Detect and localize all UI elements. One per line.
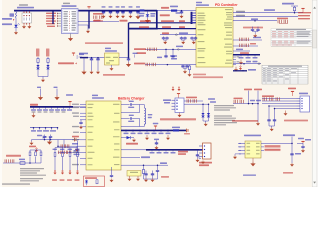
thick pin bundle left top <box>192 12 197 24</box>
capacitor C12 C13 <box>190 37 197 45</box>
bus BAT thick <box>121 149 203 153</box>
wire VOUT thick <box>233 69 256 72</box>
capacitor C21 <box>43 135 46 140</box>
TP label and flag <box>288 88 296 96</box>
IC U4 label <box>92 95 104 99</box>
ground under J1 <box>68 34 73 42</box>
wire GPIO row <box>233 18 277 21</box>
ground under J2 <box>178 113 182 118</box>
capacitor C18 <box>126 58 131 67</box>
pin stubs J1 left <box>57 13 61 27</box>
resistor array pullups <box>277 18 288 24</box>
wire VBUS down to LDO <box>128 23 130 58</box>
heading fuel gauge red <box>6 155 21 157</box>
capacitor C23 left <box>79 120 83 129</box>
capacitor C32 right <box>301 143 305 152</box>
wire AUX row <box>233 61 261 65</box>
corner text <box>2 183 30 184</box>
wire SPI row <box>134 48 196 54</box>
wire CC from J1 right <box>78 20 128 22</box>
TP marks <box>250 100 261 102</box>
grounds under SYS <box>145 135 170 140</box>
connector J1 USB Type-C <box>62 9 79 34</box>
net label VBAT blue <box>283 134 295 143</box>
ground under ILIM <box>30 140 41 145</box>
table 1 power data <box>271 29 312 47</box>
ground left U5 <box>233 154 238 159</box>
diode D3 stat <box>121 136 136 142</box>
scrollbar thumb <box>313 30 317 48</box>
wire R1 to LED <box>15 18 17 25</box>
pin names U5 <box>247 143 260 155</box>
net label VB wire down 2 <box>254 89 262 104</box>
wire bus A to charger <box>73 106 86 108</box>
resistor pulldown I2C <box>188 65 192 77</box>
capacitor C27 <box>273 109 276 127</box>
wire row GPIO7 <box>233 49 250 51</box>
ferrite bead FB1 <box>139 9 145 16</box>
TVS branch CC2 <box>46 49 50 77</box>
ferrite bead FB2 <box>170 6 178 12</box>
connector J4 label <box>299 93 308 95</box>
TS network <box>121 162 169 179</box>
sense resistors J4 <box>262 95 279 100</box>
net label BAT_TEST <box>126 143 138 145</box>
wire BTST2 hook with series cap <box>121 115 140 127</box>
svg-text:PD Controller: PD Controller <box>215 3 238 7</box>
svg-text:Battery Charger: Battery Charger <box>118 97 145 101</box>
net label red NeoMXL <box>284 120 308 122</box>
TP column 4 <box>75 148 80 181</box>
LED D1 <box>14 23 20 31</box>
TP column 1 <box>52 148 57 181</box>
resistor R1 <box>10 11 18 18</box>
ground under bus tap <box>239 60 243 65</box>
ground shared TVS <box>38 77 48 83</box>
capacitor C25 at J3 <box>196 150 200 162</box>
net label on ILIM <box>72 136 79 138</box>
junction <box>91 57 93 59</box>
bus SYS thick <box>121 130 186 134</box>
ESD IC U2 <box>22 11 32 24</box>
wire VBUS to PD pin <box>157 10 196 12</box>
note blue bottom <box>243 174 256 176</box>
test point flag <box>29 146 38 152</box>
ground TVS pack <box>203 121 209 126</box>
capacitor C30 <box>151 171 155 183</box>
TVS branch CC1 <box>36 49 40 77</box>
wire PPHV thick <box>139 26 196 28</box>
left pin wires U5 <box>238 143 245 155</box>
ground J3 <box>199 157 205 165</box>
TVS pack 1 <box>201 104 204 121</box>
wires into J4 <box>262 99 297 109</box>
ground left U4 <box>75 146 79 151</box>
wire TP rail <box>55 141 78 148</box>
net labels left of J1 <box>46 13 56 27</box>
power flag VBUS <box>87 7 90 9</box>
net label BAT red <box>178 151 188 155</box>
connector J4 <box>297 96 310 112</box>
scrollbar <box>312 0 320 187</box>
note block B <box>214 115 237 125</box>
net label VBUS_IN <box>160 14 170 16</box>
wire stub vertical <box>110 167 114 182</box>
left pin wires U4 <box>72 104 86 166</box>
crystal Y1 <box>127 171 141 182</box>
bus VSYS taps <box>31 106 72 112</box>
table 2 pin map <box>262 65 308 84</box>
wire I2C SCL <box>233 16 298 18</box>
wire VBUS_PD thick <box>129 20 197 23</box>
capacitor C16 <box>90 58 94 75</box>
junction <box>147 10 149 12</box>
wire SW2 <box>121 126 140 128</box>
wire BAT sense <box>121 156 150 158</box>
net label PD_CHG_EN1 <box>261 145 281 147</box>
power flag 3V3 <box>301 8 304 12</box>
capacitors on SPI row <box>164 46 183 59</box>
pin names U4 <box>88 104 120 166</box>
bus PROG <box>30 127 58 132</box>
wire VBUS bus top <box>14 10 157 12</box>
scrollbar track <box>312 0 317 187</box>
wire gauge row <box>3 159 31 163</box>
note block A <box>214 105 236 111</box>
connector J2 pack <box>172 98 185 113</box>
wire I2C row lower <box>134 63 196 67</box>
TP column 2 <box>60 148 65 181</box>
ground under U5 <box>250 158 255 166</box>
capacitor C28 top <box>37 135 47 138</box>
ground J4 <box>284 111 288 116</box>
stub to ground right of J1 <box>78 25 90 33</box>
test point label <box>133 53 138 58</box>
labels I2C row <box>157 55 177 59</box>
op IC U3 PD controller body <box>196 8 233 68</box>
net labels TP right <box>298 12 311 19</box>
scrollbar down arrow <box>313 182 316 184</box>
ground top B <box>54 87 60 101</box>
pin stubs U3 right lower <box>233 56 240 64</box>
scrollbar up arrow <box>313 7 316 9</box>
ground drop <box>256 104 260 126</box>
net label CA_CN_PWR <box>58 62 77 64</box>
wire LDO_3V3 <box>160 32 196 35</box>
capacitor C29 <box>144 171 148 183</box>
capacitor C10 C11 <box>180 37 187 45</box>
grounds under U3 right <box>234 66 242 72</box>
IC U5 load switch body <box>245 141 261 158</box>
power flag VCONN <box>72 53 75 56</box>
net label VBUS top <box>161 7 169 9</box>
wire I2C SDA <box>233 9 303 13</box>
ground mid <box>47 137 52 145</box>
note under U3 <box>193 74 223 79</box>
pack sense resistors <box>184 97 209 105</box>
scrollbar gutter <box>312 0 320 187</box>
power flag pack <box>177 94 180 98</box>
wire SW1 <box>121 112 140 114</box>
capacitor bank C1..C6 <box>102 6 141 19</box>
capacitor C20 <box>77 54 85 58</box>
junction <box>128 57 130 59</box>
wire VOUT U5 <box>261 143 293 145</box>
resistor array R CC <box>93 13 103 22</box>
note red under LDO <box>103 74 125 76</box>
ground under bus A <box>32 113 36 118</box>
battery connector J3 <box>199 143 211 159</box>
capacitor C24 <box>154 139 159 150</box>
net label PACK red <box>160 118 196 120</box>
junction thick at x53 <box>52 11 54 24</box>
power flag on SYS <box>153 123 159 131</box>
net label VBUS_SNS <box>2 18 15 25</box>
resistor row SDA SCL <box>58 150 80 155</box>
IC U6 LDO body <box>105 53 120 65</box>
divider network <box>29 150 42 163</box>
wire BTST1 hook with series cap <box>121 101 140 113</box>
BAT PWR highlight box <box>84 176 105 187</box>
capacitor C8 C9 <box>162 37 169 45</box>
note red bottom <box>283 172 293 174</box>
junctions J4 <box>268 105 275 109</box>
IC U2 label <box>17 4 34 8</box>
power flag VSYS <box>66 94 73 107</box>
polarized cap red <box>72 138 80 142</box>
note red sentence <box>85 42 123 44</box>
capacitor C26 <box>267 106 270 126</box>
capacitor C31 <box>290 143 301 166</box>
polarized cap SYS <box>184 129 190 135</box>
test points red pair <box>172 87 180 91</box>
connector J2 label <box>163 99 171 103</box>
TVS pack 2 <box>207 104 210 121</box>
label J3 battery <box>199 162 212 166</box>
net labels at U3 right pins <box>236 11 245 16</box>
IC U3 label <box>196 2 209 6</box>
net label PD_CHG_EN2 <box>261 149 281 151</box>
capacitor C17 <box>96 58 100 75</box>
resistor R2 pullup <box>282 3 298 13</box>
IC U6 LDO label <box>105 48 117 52</box>
note force adapter <box>243 27 263 29</box>
TP column 3 <box>67 148 72 181</box>
resistor row REGN <box>57 143 80 148</box>
ground top A <box>37 87 43 101</box>
bus LDO_3V3 thick <box>233 52 260 58</box>
connector J1 label <box>62 3 77 7</box>
grounds under U2 <box>22 25 26 29</box>
sheet background <box>0 0 320 187</box>
capacitor C7 <box>176 10 184 18</box>
resistor row GPIO5 <box>233 37 262 41</box>
notes block bottom left <box>20 168 46 181</box>
net label VB wire down 1 <box>244 89 252 104</box>
wire VBUS corner down <box>129 10 157 29</box>
wire stubs down <box>58 140 64 147</box>
ground left big <box>81 58 86 75</box>
ground under LDO <box>110 65 114 71</box>
net label 5V out thick <box>79 53 88 58</box>
ground under LED <box>14 31 18 35</box>
capacitors on I2C row <box>181 65 188 74</box>
resistor R7 gauge <box>19 159 25 165</box>
IC U5 label <box>244 135 261 137</box>
power flag right <box>297 138 311 144</box>
fuse F1 on SYS <box>172 127 180 132</box>
IC U4 charger body <box>86 101 121 170</box>
capacitor C14 C15 <box>251 27 260 38</box>
wire row sense <box>233 98 259 105</box>
bus VSYS <box>30 104 73 107</box>
wire LDO in from VBUS <box>119 57 129 59</box>
ground caps <box>269 126 275 131</box>
wire VBUS drop <box>88 11 90 29</box>
TVS diode D2 <box>145 11 156 23</box>
pin names U3 <box>198 9 233 64</box>
resistor row GPIO6 <box>233 43 258 47</box>
wire LDO left <box>88 57 105 59</box>
inductor L1 <box>140 105 153 127</box>
TP labels <box>208 98 216 103</box>
capacitor C22 <box>49 135 52 140</box>
net label PRC red <box>232 120 258 122</box>
wire row ILIM <box>40 139 72 141</box>
